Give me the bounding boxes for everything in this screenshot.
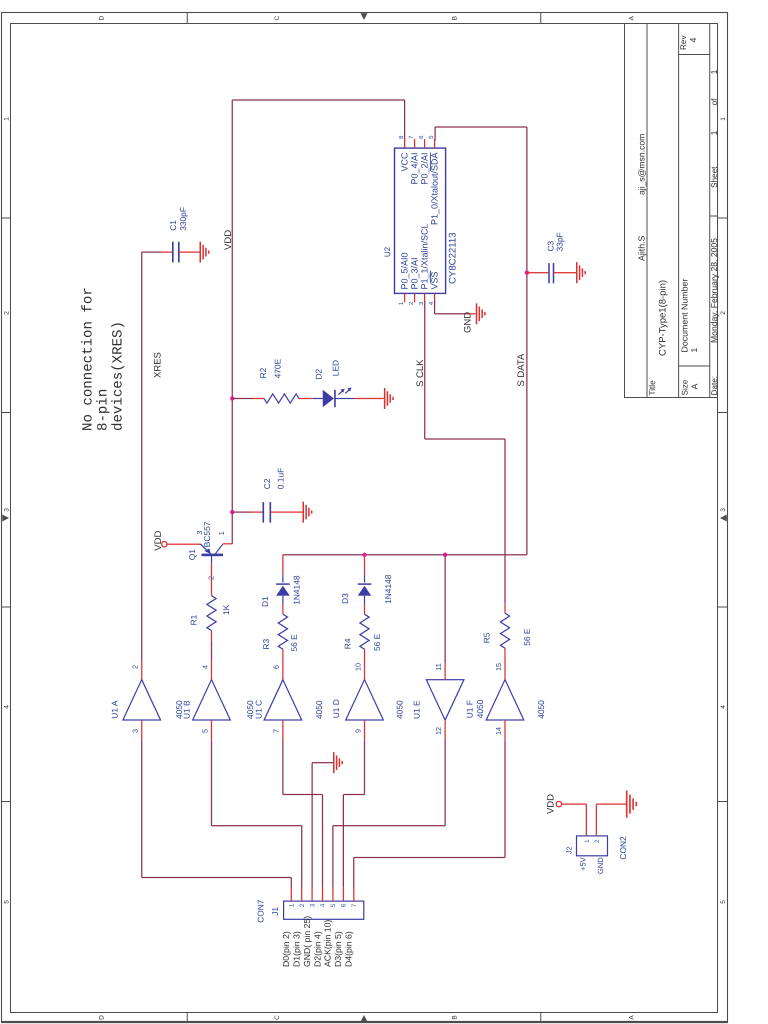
svg-text:6: 6 <box>341 903 348 907</box>
svg-text:J2: J2 <box>565 846 574 854</box>
svg-text:VDD: VDD <box>153 531 164 551</box>
svg-text:56 E: 56 E <box>289 634 299 652</box>
svg-text:C: C <box>274 1015 281 1020</box>
svg-text:U1 D: U1 D <box>331 699 341 718</box>
svg-text:3: 3 <box>309 903 316 907</box>
svg-text:VDD: VDD <box>546 794 557 814</box>
svg-text:1: 1 <box>217 531 226 535</box>
svg-text:U2: U2 <box>383 246 392 257</box>
svg-text:U1 F: U1 F <box>464 700 474 718</box>
svg-text:D: D <box>98 16 105 21</box>
svg-text:2: 2 <box>720 311 727 315</box>
svg-text:5: 5 <box>428 135 435 139</box>
svg-text:6: 6 <box>272 665 281 669</box>
svg-text:4050: 4050 <box>536 700 546 719</box>
svg-text:4: 4 <box>688 38 698 43</box>
svg-text:P0_4/AI: P0_4/AI <box>410 153 420 185</box>
svg-text:0.1uF: 0.1uF <box>276 468 286 489</box>
svg-text:D: D <box>98 1015 105 1020</box>
svg-text:4: 4 <box>200 665 209 669</box>
svg-text:GND: GND <box>463 312 474 333</box>
svg-text:U1 E: U1 E <box>412 700 422 719</box>
svg-text:D4(pin 6): D4(pin 6) <box>344 931 354 967</box>
svg-text:1: 1 <box>720 117 727 121</box>
svg-text:devices(XRES): devices(XRES) <box>111 321 127 431</box>
svg-text:1: 1 <box>398 301 405 305</box>
svg-text:15: 15 <box>494 663 503 671</box>
svg-text:U1 A: U1 A <box>109 700 119 719</box>
svg-text:2: 2 <box>594 839 601 843</box>
svg-text:CY8C22113: CY8C22113 <box>447 232 458 284</box>
svg-text:1N4148: 1N4148 <box>292 575 302 605</box>
svg-text:Rev: Rev <box>679 35 688 50</box>
svg-text:LED: LED <box>331 360 341 376</box>
svg-text:CON7: CON7 <box>255 899 265 923</box>
svg-text:R2: R2 <box>258 367 268 378</box>
svg-text:7: 7 <box>272 729 281 733</box>
svg-text:2: 2 <box>299 903 306 907</box>
svg-text:2: 2 <box>131 665 140 669</box>
svg-text:A: A <box>690 384 700 390</box>
svg-text:P1_1/Xtalin/SCL: P1_1/Xtalin/SCL <box>420 223 430 289</box>
svg-text:3: 3 <box>418 301 425 305</box>
svg-text:D1: D1 <box>260 596 270 607</box>
svg-text:D3: D3 <box>340 593 350 604</box>
svg-text:B: B <box>451 16 458 20</box>
svg-text:of: of <box>710 98 719 106</box>
svg-text:6: 6 <box>418 135 425 139</box>
svg-text:A: A <box>628 15 635 20</box>
svg-text:56 E: 56 E <box>372 633 382 651</box>
svg-text:1N4148: 1N4148 <box>383 574 393 604</box>
svg-text:2: 2 <box>3 311 10 315</box>
svg-text:Document Number: Document Number <box>679 279 689 353</box>
svg-text:1: 1 <box>3 117 10 121</box>
svg-text:1: 1 <box>709 69 719 74</box>
svg-text:R3: R3 <box>261 639 271 650</box>
svg-text:3: 3 <box>720 508 727 512</box>
svg-text:C1: C1 <box>168 220 178 231</box>
svg-text:CYP-Type1(8-pin): CYP-Type1(8-pin) <box>658 280 669 356</box>
svg-text:Monday, February 28, 2005: Monday, February 28, 2005 <box>709 238 719 343</box>
svg-text:56 E: 56 E <box>522 628 532 646</box>
svg-text:5: 5 <box>3 900 10 904</box>
svg-text:1: 1 <box>289 903 296 907</box>
svg-text:P0_2/AI: P0_2/AI <box>420 153 430 185</box>
svg-text:7: 7 <box>351 903 358 907</box>
svg-text:Ajith.S: Ajith.S <box>637 235 647 261</box>
svg-text:10: 10 <box>353 663 362 671</box>
svg-text:U1 B: U1 B <box>182 700 192 719</box>
svg-text:4: 4 <box>320 903 327 907</box>
svg-text:A: A <box>628 1015 635 1020</box>
svg-text:P0_5/AI0: P0_5/AI0 <box>400 252 410 289</box>
svg-text:GND: GND <box>596 857 605 874</box>
svg-text:Date:: Date: <box>710 376 719 396</box>
svg-text:8: 8 <box>398 135 405 139</box>
svg-text:4: 4 <box>3 705 10 709</box>
svg-text:3: 3 <box>195 531 204 535</box>
svg-text:9: 9 <box>353 729 362 733</box>
svg-text:P0_3/AI: P0_3/AI <box>410 257 420 289</box>
svg-text:+5V: +5V <box>579 856 588 871</box>
svg-text:C2: C2 <box>262 478 272 489</box>
svg-text:11: 11 <box>434 663 443 670</box>
svg-text:R5: R5 <box>482 632 492 643</box>
svg-text:ACK(pin 10): ACK(pin 10) <box>323 920 333 967</box>
svg-text:J1: J1 <box>270 907 280 916</box>
svg-text:7: 7 <box>408 135 415 139</box>
svg-text:C: C <box>274 16 281 21</box>
svg-text:B: B <box>451 1015 458 1019</box>
svg-text:12: 12 <box>434 727 443 735</box>
svg-text:D2(pin 4): D2(pin 4) <box>312 931 322 967</box>
svg-text:1: 1 <box>709 130 719 135</box>
svg-text:5: 5 <box>330 903 337 907</box>
svg-text:33pF: 33pF <box>555 232 565 251</box>
svg-text:470E: 470E <box>273 358 283 378</box>
svg-text:R1: R1 <box>189 614 199 625</box>
svg-text:1: 1 <box>689 348 699 353</box>
svg-text:D1(pin 3): D1(pin 3) <box>292 931 302 967</box>
svg-text:aji_s@msn.com: aji_s@msn.com <box>637 134 647 195</box>
svg-text:GND( pin 25): GND( pin 25) <box>302 916 312 967</box>
svg-text:No connection for: No connection for <box>81 287 97 431</box>
svg-text:Sheet: Sheet <box>710 166 719 188</box>
svg-text:U1 C: U1 C <box>253 700 263 719</box>
svg-text:2: 2 <box>206 576 215 580</box>
svg-text:Title: Title <box>648 380 657 396</box>
svg-text:3: 3 <box>3 508 10 512</box>
svg-text:14: 14 <box>494 727 503 735</box>
svg-text:D0(pin 2): D0(pin 2) <box>281 931 291 967</box>
svg-text:S DATA: S DATA <box>516 353 527 387</box>
svg-text:330pF: 330pF <box>178 207 188 231</box>
svg-text:VCC: VCC <box>400 152 410 172</box>
svg-text:2: 2 <box>408 301 415 305</box>
svg-text:4: 4 <box>720 705 727 709</box>
svg-text:Q1: Q1 <box>187 549 197 561</box>
svg-text:4050: 4050 <box>314 700 324 719</box>
svg-text:3: 3 <box>131 729 140 733</box>
svg-text:S CLK: S CLK <box>415 359 426 387</box>
svg-text:1K: 1K <box>221 604 231 615</box>
svg-text:D3(pin 5): D3(pin 5) <box>333 931 343 967</box>
svg-text:5: 5 <box>720 900 727 904</box>
svg-text:4050: 4050 <box>394 700 404 719</box>
svg-text:1: 1 <box>584 839 591 843</box>
svg-text:8-pin: 8-pin <box>96 389 112 431</box>
svg-text:Size: Size <box>680 379 689 395</box>
svg-text:D2: D2 <box>314 368 324 379</box>
svg-text:5: 5 <box>200 729 209 733</box>
svg-text:4050: 4050 <box>475 699 485 718</box>
svg-text:XRES: XRES <box>153 352 164 378</box>
svg-text:CON2: CON2 <box>618 836 628 860</box>
svg-text:R4: R4 <box>343 638 353 649</box>
